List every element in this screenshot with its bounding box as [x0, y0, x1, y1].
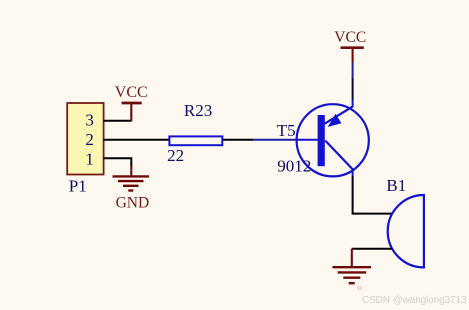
wire emitter to VCC [352, 61, 354, 99]
transistor T5 (9012, PNP) [253, 99, 369, 177]
wire pin2 to resistor [104, 139, 169, 141]
P1 pin number 2 [85, 130, 94, 149]
label P1 [69, 177, 87, 196]
wire collector to buzzer [353, 176, 393, 214]
resistor R23 [169, 136, 222, 145]
svg-text:B1: B1 [386, 176, 406, 195]
svg-text:VCC: VCC [334, 29, 366, 46]
svg-text:1: 1 [85, 149, 94, 168]
svg-text:T5: T5 [277, 121, 296, 140]
label R23 [184, 101, 212, 120]
svg-text:VCC: VCC [115, 84, 148, 101]
connector P1 body [67, 103, 103, 175]
value 9012 [277, 157, 311, 176]
wire buzzer to ground [352, 248, 392, 250]
label T5 [277, 121, 296, 140]
svg-text:3: 3 [85, 111, 94, 130]
svg-text:9012: 9012 [277, 157, 311, 176]
svg-text:GND: GND [116, 195, 150, 212]
label VCC (right) [334, 29, 366, 46]
power VCC symbol (right) [341, 48, 364, 62]
wire pin1 to ground [104, 158, 132, 167]
svg-text:CSDN @wanglong3713: CSDN @wanglong3713 [362, 295, 467, 306]
svg-text:2: 2 [85, 130, 94, 149]
ground symbol (right) [332, 249, 371, 284]
svg-text:22: 22 [167, 146, 184, 165]
svg-text:P1: P1 [69, 177, 87, 196]
watermark CSDN logo dot [357, 286, 362, 290]
ground symbol (left) [113, 166, 150, 191]
wire resistor to transistor base [223, 139, 253, 141]
svg-text:R23: R23 [184, 101, 212, 120]
P1 pin number 1 [85, 149, 94, 168]
label VCC (left) [115, 84, 148, 101]
value 22 [167, 146, 184, 165]
label GND [116, 195, 150, 212]
P1 pin number 3 [85, 111, 94, 130]
watermark CSDN [362, 295, 467, 306]
label B1 [386, 176, 406, 195]
power VCC symbol (left) [122, 103, 142, 122]
buzzer B1 [388, 195, 424, 267]
wire pin3 to VCC [104, 120, 132, 122]
